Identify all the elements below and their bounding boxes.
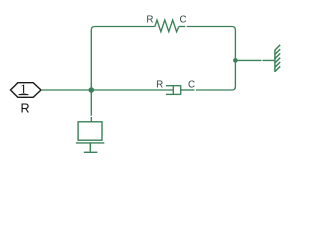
wire: C1 along top to right rail down to node B [187, 27, 236, 91]
node A junction dot [89, 87, 95, 93]
wire: R1 to capacitor C1 port [179, 26, 186, 28]
resistor R1 (zigzag) [155, 20, 179, 32]
wire: damper to capacitor C2 port [181, 89, 195, 91]
off-page connector tag 1 [11, 81, 42, 97]
svg-text:C: C [180, 15, 187, 26]
wire: tag to node A [41, 89, 91, 91]
svg-text:R: R [146, 15, 153, 26]
capacitor C3 flat plate [76, 142, 104, 144]
wire: node A up and along top branch to resistor R1 [91, 27, 155, 91]
node B junction dot [233, 58, 238, 63]
fixed wall support (hatched) [275, 45, 280, 72]
capacitor C3 (box plate) [78, 122, 102, 140]
ground tick [84, 151, 98, 153]
svg-text:R: R [21, 101, 30, 115]
wire: node A to damper R2 rod [91, 89, 173, 91]
damper R2 (dashpot) [166, 85, 181, 95]
svg-text:R: R [156, 80, 163, 91]
ground stem [89, 143, 91, 152]
wire: node A down to capacitor C3 [90, 90, 92, 122]
wire: node B to fixed wall [235, 59, 275, 61]
svg-text:C: C [188, 80, 195, 91]
